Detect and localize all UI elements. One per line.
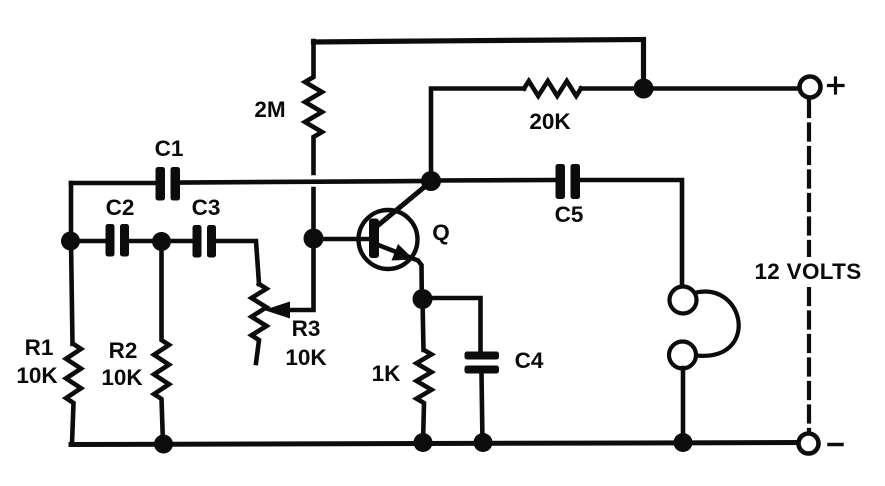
wire: node B to C3: [162, 239, 194, 244]
resistor R2 (lead from node B, zigzag, lead to bottom rail): [154, 241, 169, 444]
resistor 20K zigzag: [524, 81, 581, 96]
svg-text:R1: R1: [25, 335, 54, 360]
junction bottom rail at 1K: [414, 433, 433, 452]
svg-text:10K: 10K: [101, 365, 143, 390]
battery dashed line: [807, 101, 811, 432]
svg-text:C5: C5: [555, 202, 584, 227]
wire: main row, left vertical down to node A: [69, 183, 74, 241]
capacitor C2: [106, 224, 130, 257]
wire: C4 bottom to rail: [482, 373, 483, 444]
label 12 VOLTS: [752, 257, 866, 287]
svg-text:C3: C3: [192, 195, 221, 220]
wire: 20K right to + node: [581, 86, 641, 91]
resistor 2M (top lead, zigzag, lead down to crossover gap): [305, 41, 322, 173]
svg-text:C2: C2: [106, 195, 135, 220]
junction node B: [152, 232, 171, 251]
arrowhead: Q emitter: [392, 244, 415, 261]
wire: node A to C2: [71, 239, 107, 244]
wire: collector node to C5: [431, 178, 556, 183]
wire: main row, left end to C1 left plate: [71, 181, 156, 186]
earphone arc: [694, 292, 739, 356]
wire: top rail from 2M top to + node corner: [314, 40, 644, 89]
capacitor C1: [156, 167, 181, 201]
transistor Q emitter stroke (diagonal, bend, down to emitter node): [377, 245, 422, 300]
svg-text:12 VOLTS: 12 VOLTS: [754, 259, 861, 284]
transistor Q base bar: [369, 219, 379, 259]
arrowhead: R3 wiper: [264, 302, 290, 319]
junction emitter node: [413, 289, 433, 309]
potentiometer R3 (zigzag and bottom lead): [252, 284, 267, 363]
wire: collector riser up and right to 20K: [431, 89, 524, 182]
transistor Q collector stroke: [376, 182, 431, 228]
wire: earphone bottom to rail: [681, 368, 686, 444]
svg-text:20K: 20K: [529, 109, 571, 134]
wire: C3 to R3 top: [216, 241, 259, 284]
terminal - circle: [799, 434, 819, 454]
svg-text:R2: R2: [109, 338, 138, 363]
junction base node: [304, 229, 324, 249]
terminal + circle: [800, 77, 821, 98]
svg-text:10K: 10K: [16, 363, 58, 388]
wire: 2M lead below crossover to base node: [311, 189, 316, 239]
label + sign: [829, 78, 844, 93]
wire: C2 to node B: [129, 239, 162, 244]
junction bottom rail at R2: [154, 435, 173, 454]
transistor Q circle: [359, 210, 418, 269]
wire: + node to + terminal: [644, 86, 800, 91]
junction collector node: [421, 171, 441, 191]
label - sign: [829, 443, 842, 446]
wire: C1 right plate to collector node: [180, 181, 431, 183]
junction + rail node: [634, 79, 654, 99]
wire: bottom rail: [71, 443, 800, 445]
junction bottom rail at earphone: [674, 433, 693, 452]
capacitor C4 (horizontal plates): [465, 352, 500, 374]
wire: C5 right, corner down to earphone: [580, 180, 682, 287]
svg-text:R3: R3: [292, 316, 321, 341]
svg-text:C4: C4: [515, 348, 544, 373]
earphone top circle: [670, 287, 697, 314]
earphone bottom circle: [669, 342, 696, 369]
junction bottom rail at C4: [474, 433, 493, 452]
wire: base node to Q base: [314, 237, 372, 242]
svg-text:1K: 1K: [372, 361, 402, 386]
wire: emitter node right to C4 top: [423, 298, 481, 352]
svg-text:2M: 2M: [254, 97, 285, 122]
resistor 1K (lead from emitter node, zigzag, lead to rail): [417, 299, 432, 444]
wire: base node down to R3 wiper arrow: [289, 239, 314, 310]
svg-text:Q: Q: [432, 220, 450, 245]
svg-text:C1: C1: [155, 136, 184, 161]
svg-text:10K: 10K: [285, 345, 327, 370]
capacitor C3: [193, 225, 217, 258]
capacitor C5: [556, 164, 581, 199]
resistor R1 (lead from node A, zigzag, lead to bottom rail): [66, 241, 81, 444]
junction node A: [61, 232, 80, 251]
